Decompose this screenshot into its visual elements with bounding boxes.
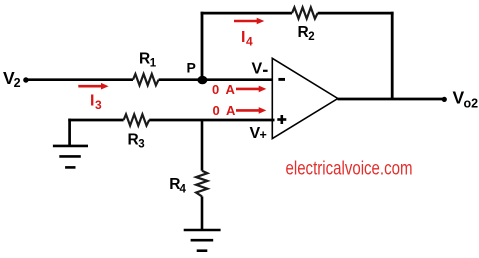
resistor R1: [133, 74, 159, 85]
svg-text:I: I: [90, 93, 94, 110]
svg-text:4: 4: [246, 34, 253, 48]
svg-text:0 A: 0 A: [212, 82, 237, 97]
wire: R4 down to ground: [201, 196, 204, 230]
svg-text:electricalvoice.com: electricalvoice.com: [286, 158, 413, 180]
svg-text:R: R: [128, 131, 139, 148]
svg-text:0 A: 0 A: [213, 103, 238, 118]
op-amp U1 plus sign: [277, 115, 286, 124]
wire: R1 to op-amp inverting input (through node P): [159, 78, 273, 81]
op-amp U1 minus sign: [278, 78, 285, 81]
wire: V2 terminal to R1: [26, 78, 133, 81]
ground (left): [53, 146, 88, 168]
wire: node P up to feedback branch: [201, 12, 204, 80]
svg-text:V: V: [252, 61, 263, 78]
svg-text:2: 2: [14, 76, 21, 90]
ground (bottom): [184, 230, 221, 251]
wire: non-inverting node down to R4: [201, 120, 204, 171]
wire: right vertical from R2 down to output: [391, 12, 394, 99]
wire: top feedback left segment: [201, 12, 292, 15]
svg-text:3: 3: [138, 138, 144, 150]
svg-text:1: 1: [150, 58, 157, 70]
node V2 terminal dot: [23, 77, 28, 82]
svg-text:P: P: [187, 60, 196, 76]
current arrow I4: [234, 20, 258, 23]
node P junction dot: [197, 76, 207, 85]
current arrow I3: [78, 85, 102, 88]
svg-text:3: 3: [95, 98, 102, 112]
wire: R3 to op-amp non-inverting input: [149, 119, 274, 122]
svg-text:4: 4: [180, 184, 187, 196]
op-amp U1 triangle: [272, 58, 338, 138]
wire: ground to R3: [68, 119, 123, 122]
resistor R2: [292, 7, 318, 18]
svg-text:R: R: [139, 51, 150, 68]
svg-text:I: I: [241, 29, 245, 46]
node Vo2 terminal dot: [442, 97, 447, 102]
wire: left vertical down to ground: [68, 119, 71, 146]
wire: op-amp output to Vo2 terminal: [338, 98, 445, 101]
svg-text:o2: o2: [464, 97, 479, 111]
svg-text:2: 2: [308, 31, 314, 43]
svg-text:+: +: [260, 128, 267, 142]
wire: top feedback right segment: [318, 12, 394, 15]
resistor R3: [124, 114, 150, 125]
resistor R4: [196, 171, 207, 197]
svg-text:R: R: [298, 24, 309, 41]
